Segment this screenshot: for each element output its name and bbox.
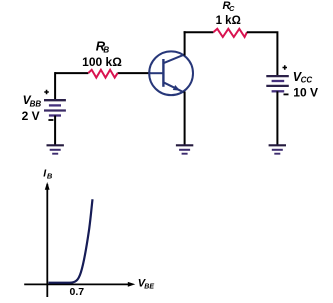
svg-text:CC: CC bbox=[301, 76, 313, 85]
wire VCC bottom bbox=[276, 91, 278, 145]
ground under VBB bbox=[47, 145, 64, 153]
label VBB plus bbox=[44, 90, 49, 95]
label VCC minus bbox=[284, 93, 289, 95]
wire VBB bottom bbox=[54, 116, 56, 145]
resistor RC bbox=[213, 29, 247, 37]
graph VBE axis horizontal bbox=[24, 283, 128, 285]
wire VBB top bbox=[54, 72, 56, 100]
wire collector up bbox=[184, 31, 186, 55]
wire base rail right (RB to Q1 base) bbox=[118, 72, 151, 74]
svg-text:10 V: 10 V bbox=[293, 86, 318, 100]
svg-text:BE: BE bbox=[144, 283, 154, 290]
wire top rail right and VCC drop bbox=[247, 32, 278, 76]
svg-text:2 V: 2 V bbox=[22, 109, 40, 123]
ground under emitter bbox=[176, 145, 193, 153]
label VCC plus bbox=[283, 65, 288, 70]
svg-text:B: B bbox=[103, 45, 109, 54]
label VBB minus bbox=[48, 119, 53, 121]
battery VBB bbox=[44, 100, 66, 115]
svg-text:1 kΩ: 1 kΩ bbox=[216, 15, 241, 27]
svg-text:100 kΩ: 100 kΩ bbox=[82, 55, 122, 69]
ground under VCC bbox=[269, 145, 286, 153]
wire base rail left (VBB to RB) bbox=[55, 72, 88, 74]
graph IB axis vertical bbox=[46, 184, 48, 297]
transistor Q1 bbox=[149, 51, 193, 95]
resistor RB bbox=[88, 70, 117, 78]
svg-text:B: B bbox=[47, 172, 53, 181]
graph diode curve bbox=[48, 199, 92, 283]
svg-text:0.7: 0.7 bbox=[69, 286, 84, 298]
wire top rail left (collector to RC) bbox=[184, 31, 214, 33]
battery VCC bbox=[266, 76, 289, 91]
svg-text:BB: BB bbox=[30, 100, 42, 109]
svg-text:C: C bbox=[229, 4, 235, 13]
wire emitter down bbox=[184, 92, 186, 145]
